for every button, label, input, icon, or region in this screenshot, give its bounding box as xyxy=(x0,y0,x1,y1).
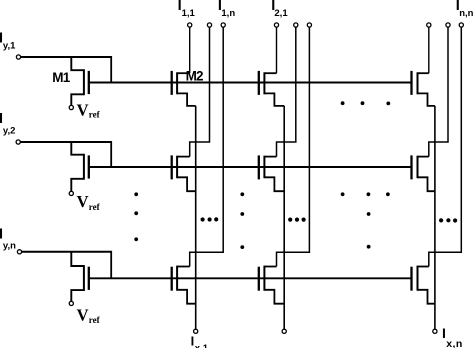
svg-text:y,n: y,n xyxy=(3,240,16,251)
wire column line I_3,n xyxy=(429,27,462,266)
transistor M2 cell row 2 col 2 xyxy=(259,155,284,191)
wire source line I_x,2 xyxy=(283,106,285,329)
wire row 3 gate drop xyxy=(110,251,112,278)
node V_ref terminal row 2 xyxy=(69,191,73,195)
ellipsis dots columns row 2 (between group 2 and 3) xyxy=(341,192,390,196)
svg-text:x,n: x,n xyxy=(446,338,462,348)
wire column line I_2,n xyxy=(277,27,310,266)
wire column line I_1,1 xyxy=(189,27,191,73)
transistor M2 xyxy=(172,71,196,106)
wire row 3 input xyxy=(22,251,111,253)
label M2 xyxy=(186,69,203,84)
transistor M2 cell row 3 col 3 xyxy=(412,266,435,304)
label Iy,1 (row 1 input) xyxy=(0,29,16,51)
svg-text:V: V xyxy=(77,192,89,211)
wire source line I_x,3 xyxy=(434,106,436,329)
svg-text:y,2: y,2 xyxy=(3,126,16,137)
label M1 xyxy=(52,70,70,85)
svg-text:M2: M2 xyxy=(186,69,203,84)
svg-text:1,n: 1,n xyxy=(221,8,235,19)
wire source line I_x,1 xyxy=(195,106,197,329)
wire column line I_1,2 xyxy=(190,27,210,156)
node input terminal Iy,1 xyxy=(16,55,20,59)
ellipsis dots columns row 1 (between group 2 and 3) xyxy=(341,101,390,105)
label Iy,n (row 3 input) xyxy=(0,226,16,252)
node input terminal Iy,n xyxy=(17,250,21,254)
svg-text:1,1: 1,1 xyxy=(182,8,196,19)
svg-text:ref: ref xyxy=(89,315,101,325)
wire row 1 gate line xyxy=(89,82,412,84)
ellipsis dots rows (left) xyxy=(134,192,138,241)
svg-text:V: V xyxy=(77,101,89,120)
wire row 2 gate line xyxy=(89,166,412,168)
wire column line I_1,n xyxy=(190,27,224,266)
node input terminal Iy,2 xyxy=(16,140,20,144)
svg-text:I: I xyxy=(0,110,3,127)
label In,n (column output) xyxy=(456,0,474,19)
label V_ref row 3 xyxy=(77,305,101,325)
ellipsis dots source line group 3 xyxy=(439,218,457,222)
svg-text:n,n: n,n xyxy=(459,8,473,19)
svg-text:I: I xyxy=(191,334,195,348)
node bottom terminal I_x,1 xyxy=(194,329,198,333)
transistor M2 cell row 1 col 2 xyxy=(259,71,284,106)
label Iy,2 (row 2 input) xyxy=(0,110,15,137)
svg-text:2,1: 2,1 xyxy=(274,8,288,19)
ellipsis dots source line group 1 xyxy=(201,217,219,221)
label V_ref row 2 xyxy=(77,192,101,212)
svg-text:y,1: y,1 xyxy=(3,41,16,52)
label I2,1 (column output) xyxy=(271,0,288,19)
node bottom terminal I_x,2 xyxy=(282,329,286,333)
svg-text:x,1: x,1 xyxy=(195,343,209,348)
transistor M2 cell row 3 col 2 xyxy=(259,266,284,304)
label I_x,1 xyxy=(191,334,209,348)
node output terminal In,1 xyxy=(427,23,431,27)
svg-text:I: I xyxy=(442,325,446,341)
svg-text:ref: ref xyxy=(89,109,101,119)
svg-text:M1: M1 xyxy=(52,70,70,85)
node output terminal I2,2 xyxy=(294,23,298,27)
node output terminal I2,n xyxy=(307,23,311,27)
node output terminal I2,1 xyxy=(274,23,278,27)
ellipsis dots rows continuation (between group 2 and 3) xyxy=(367,212,371,249)
wire column line I_3,2 xyxy=(429,27,448,156)
svg-text:ref: ref xyxy=(89,202,101,212)
node output terminal I1,2 xyxy=(207,23,211,27)
wire row 3 gate line xyxy=(89,277,412,279)
ellipsis dots source line group 2 xyxy=(288,218,306,222)
svg-text:V: V xyxy=(77,305,89,324)
transistor M1 row 3 (diode-connected) xyxy=(71,252,89,302)
transistor M1 (diode-connected) xyxy=(71,57,89,106)
wire column line I_2,1 xyxy=(276,27,278,73)
transistor M2 cell row 1 col 3 xyxy=(412,71,435,106)
wire row 2 input xyxy=(21,141,112,143)
wire row 2 gate drop xyxy=(110,141,112,167)
node output terminal In,2 xyxy=(446,23,450,27)
transistor M2 cell row 2 col 1 xyxy=(172,155,196,191)
wire column line I_2,2 xyxy=(277,27,296,156)
node output terminal I1,n xyxy=(221,23,225,27)
transistor M2 cell row 2 col 3 xyxy=(412,155,435,191)
node output terminal I1,1 xyxy=(188,23,192,27)
wire row 1 input xyxy=(21,56,111,58)
transistor M1 row 2 (diode-connected) xyxy=(71,142,89,191)
label I1,n (column output) xyxy=(218,0,235,19)
wire row 1 gate drop xyxy=(110,56,112,83)
node V_ref terminal row 1 xyxy=(69,105,73,109)
label I_x,n xyxy=(442,325,463,348)
node output terminal In,n xyxy=(459,23,463,27)
label V_ref row 1 xyxy=(77,101,101,120)
node bottom terminal I_x,3 xyxy=(433,329,437,333)
wire column line I_3,1 xyxy=(428,27,430,73)
node V_ref terminal row 3 xyxy=(69,301,73,305)
transistor M2 cell row 3 col 1 xyxy=(172,266,196,304)
ellipsis dots rows (between group 1 and 2) xyxy=(240,192,244,249)
label I1,1 (column output) xyxy=(178,0,196,19)
